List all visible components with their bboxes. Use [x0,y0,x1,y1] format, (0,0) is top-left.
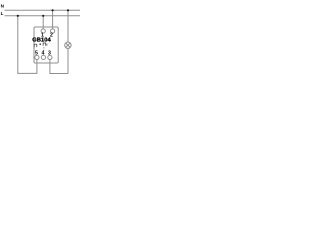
svg-text:2: 2 [50,33,53,39]
svg-text:1: 1 [41,33,44,39]
svg-text:3: 3 [48,51,51,57]
svg-text:5: 5 [35,51,38,57]
svg-text:L: L [1,11,4,16]
svg-text:4: 4 [42,51,45,57]
